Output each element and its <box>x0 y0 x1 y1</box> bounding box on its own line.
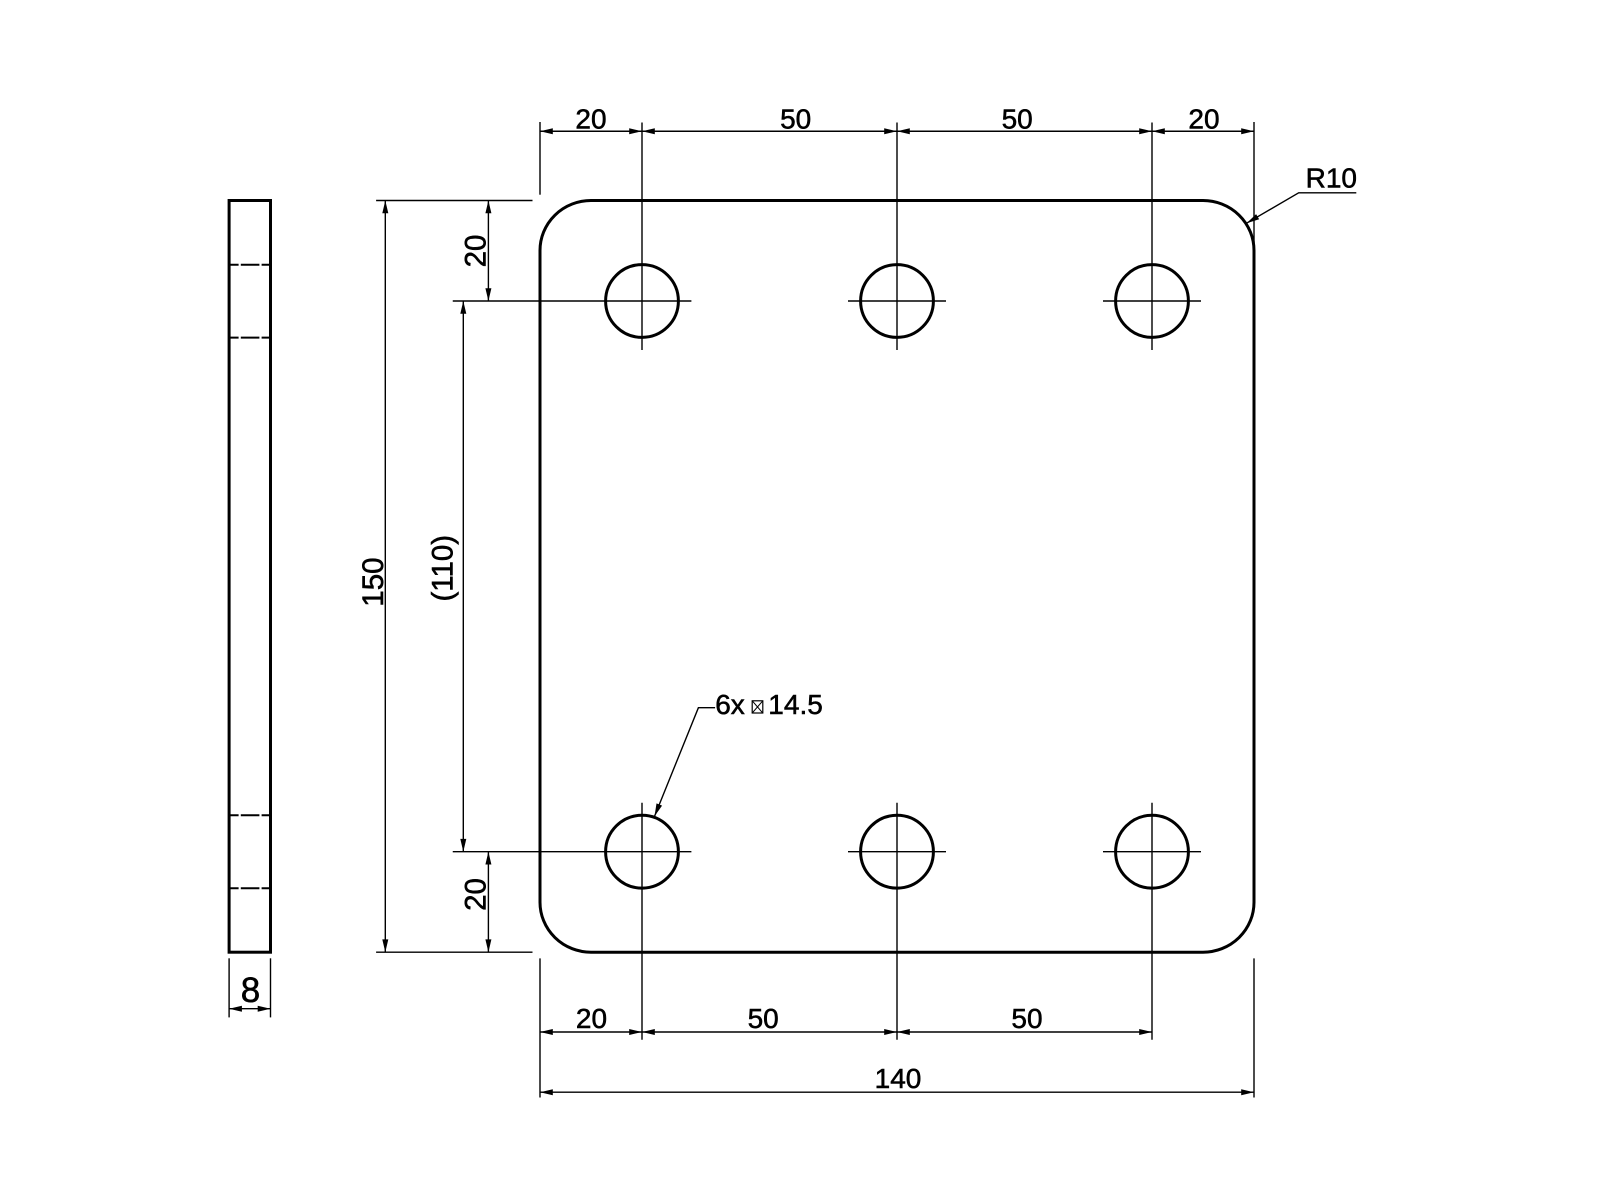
arrow top chain at 642 pointing right <box>629 128 642 134</box>
centerline horizontal hole B3 <box>1103 851 1201 853</box>
arrow 110 bottom pointing down <box>460 839 466 852</box>
centerline vertical hole top x=1152 <box>1151 123 1153 351</box>
centerline horizontal hole B2 <box>848 851 946 853</box>
svg-text:150: 150 <box>357 557 390 606</box>
arrow top chain at 897 pointing left <box>897 128 910 134</box>
leader arrow hole callout <box>655 803 663 816</box>
side view hidden line hole row1 lower <box>229 337 270 339</box>
extension line 8 right <box>270 958 272 1017</box>
arrow bottom chain at 1152 pointing right <box>1139 1029 1152 1035</box>
bottom dimension chain line <box>540 1031 1152 1033</box>
callout missing glyph box X stroke2 <box>752 701 763 713</box>
svg-text:6x: 6x <box>715 689 745 720</box>
svg-text:20: 20 <box>575 104 606 135</box>
hole B1 bottom-left <box>606 815 679 888</box>
dimension line 140 <box>540 1091 1254 1093</box>
svg-text:14.5: 14.5 <box>768 689 823 720</box>
extension line 150 top horizontal <box>376 200 532 202</box>
leader line R10 <box>1247 193 1357 223</box>
hole A2 top-middle <box>861 265 934 338</box>
arrow 8 left pointing left <box>229 1006 242 1012</box>
svg-text:50: 50 <box>780 104 811 135</box>
arrow 140 left <box>540 1089 553 1095</box>
centerline vertical hole bottom x=897 <box>896 803 898 1040</box>
arrow bottom chain at 540 pointing left <box>540 1029 553 1035</box>
dimension line 8 <box>229 1008 270 1010</box>
dimension line 110 <box>462 301 464 852</box>
svg-text:50: 50 <box>748 1003 779 1034</box>
arrow bottom chain at 897 pointing left <box>897 1029 910 1035</box>
extension line bottom left plate edge <box>539 958 541 1097</box>
arrow 110 top pointing up <box>460 301 466 314</box>
arrow top chain at 1254 pointing right <box>1241 128 1254 134</box>
arrow bottom chain at 642 pointing left <box>642 1029 655 1035</box>
extension line bottom right plate edge <box>1253 958 1255 1097</box>
side view plate outline <box>229 201 270 953</box>
callout missing glyph box X stroke1 <box>752 701 763 713</box>
hole B2 bottom-middle <box>861 815 934 888</box>
centerline vertical hole top x=642 <box>641 123 643 351</box>
svg-text:(110): (110) <box>427 535 460 602</box>
extension line top left plate edge <box>539 122 541 195</box>
centerline vertical hole top x=897 <box>896 123 898 351</box>
centerline horizontal hole A2 <box>848 300 946 302</box>
arrow bottom chain at 642 pointing right <box>629 1029 642 1035</box>
arrow 140 right <box>1241 1089 1254 1095</box>
dimension line 150 <box>384 201 386 953</box>
centerline vertical hole bottom x=642 <box>641 803 643 1040</box>
arrow 150 bottom pointing down <box>382 939 388 952</box>
callout missing glyph box <box>752 701 763 713</box>
dimension line 20 vertical top <box>487 201 489 302</box>
hole A1 top-left <box>606 265 679 338</box>
centerline horizontal hole A1 <box>453 300 692 302</box>
arrow 150 top pointing up <box>382 201 388 214</box>
arrow top chain at 540 pointing left <box>540 128 553 134</box>
svg-text:20: 20 <box>459 878 492 911</box>
svg-text:20: 20 <box>576 1003 607 1034</box>
hole B3 bottom-right <box>1116 815 1189 888</box>
arrow bottom chain at 897 pointing right <box>884 1029 897 1035</box>
arrow 20 vtop pointing down <box>485 288 491 301</box>
side view hidden line hole row1 upper <box>229 264 270 266</box>
centerline vertical hole bottom x=1152 <box>1151 803 1153 1040</box>
front view plate outline rounded rect <box>540 201 1254 953</box>
svg-text:140: 140 <box>875 1063 922 1094</box>
arrow top chain at 642 pointing left <box>642 128 655 134</box>
leader arrow R10 <box>1247 214 1260 223</box>
svg-text:20: 20 <box>459 235 492 268</box>
arrow 20 vbot pointing down <box>485 939 491 952</box>
top dimension chain line <box>540 130 1254 132</box>
extension line top right plate edge <box>1253 122 1255 247</box>
svg-text:R10: R10 <box>1306 162 1357 193</box>
arrow 8 right pointing right <box>258 1006 271 1012</box>
arrow top chain at 1152 pointing left <box>1152 128 1165 134</box>
side view hidden line hole row2 lower <box>229 887 270 889</box>
extension line 8 left <box>228 958 230 1017</box>
leader line hole callout <box>655 708 716 817</box>
centerline horizontal hole A3 <box>1103 300 1201 302</box>
arrow 20 vtop pointing up <box>485 201 491 214</box>
arrow top chain at 1152 pointing right <box>1139 128 1152 134</box>
dimension line 20 vertical bottom <box>487 852 489 953</box>
centerline horizontal hole B1 <box>453 851 692 853</box>
svg-text:50: 50 <box>1002 104 1033 135</box>
side view hidden line hole row2 upper <box>229 814 270 816</box>
extension line 150 bottom horizontal <box>376 951 532 953</box>
svg-text:8: 8 <box>241 971 260 1010</box>
svg-text:20: 20 <box>1188 104 1219 135</box>
arrow 20 vbot pointing up <box>485 852 491 865</box>
hole A3 top-right <box>1116 265 1189 338</box>
svg-text:50: 50 <box>1011 1003 1042 1034</box>
arrow top chain at 897 pointing right <box>884 128 897 134</box>
